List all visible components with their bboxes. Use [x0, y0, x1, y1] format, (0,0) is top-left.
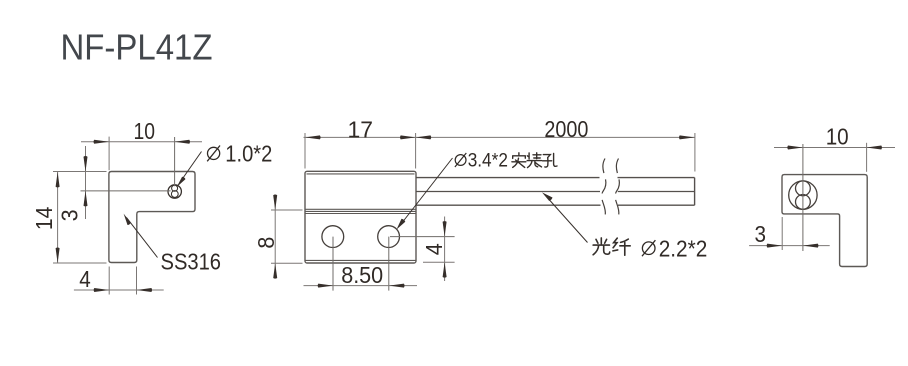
dim 3 upper arrow: [84, 156, 88, 171]
mounting hole right: [378, 226, 400, 248]
body bottom inner line: [305, 259, 416, 261]
label diameter symbol for 2.2*2: [642, 240, 655, 256]
right view part outline: [782, 175, 867, 267]
cable break curve left: [602, 159, 606, 221]
dim 8.50 right arrow: [389, 284, 405, 288]
hole inner circle lower (fiber core): [171, 191, 178, 198]
mounting hole left: [322, 226, 344, 248]
label 安 (mounting) char: [512, 153, 526, 168]
dim 3 (right) right arrow: [803, 244, 819, 248]
dim 10 left arrow: [94, 140, 110, 144]
leader line for hole label: [181, 152, 202, 182]
hole vertical centerline: [802, 144, 804, 251]
dim 10 right arrow: [174, 140, 190, 144]
dim 4 line: [74, 289, 164, 291]
label 装 (install) char: [527, 153, 541, 168]
dim 8.50 line: [304, 285, 418, 287]
svg-text:3: 3: [57, 209, 83, 221]
svg-text:8: 8: [253, 237, 279, 249]
hole outer circle (ferrule): [168, 185, 181, 198]
dim 10 (right) extension line: [866, 143, 868, 172]
dim 4 (middle) bottom extension line: [423, 261, 455, 263]
dim 8 bottom extension line: [271, 262, 303, 264]
right hole centerline down: [388, 237, 390, 291]
svg-text:8.50: 8.50: [341, 262, 383, 288]
sensor body outline: [305, 171, 416, 263]
body middle band line 2: [305, 210, 416, 212]
dim 8.50 left arrow: [318, 284, 334, 288]
svg-text:SS316: SS316: [161, 249, 222, 275]
dim 10 (right) right arrow: [866, 146, 882, 150]
dim 4 right arrow: [137, 288, 153, 292]
svg-text:17: 17: [348, 116, 374, 142]
dim 10 (right) left arrow: [787, 146, 803, 150]
svg-text:NF-PL41Z: NF-PL41Z: [61, 27, 213, 68]
dim 10 line: [81, 141, 202, 143]
body middle band line 1: [305, 208, 416, 210]
leader line for SS316: [127, 218, 158, 258]
label 光 (light) char: [593, 238, 610, 255]
label 孔 (hole) char: [542, 153, 557, 167]
dim 3 (right) left arrow: [767, 244, 783, 248]
svg-text:3.4*2: 3.4*2: [468, 150, 508, 171]
dim 4 left arrow: [94, 288, 110, 292]
fiber cable end cap: [694, 178, 696, 206]
label diameter symbol for 1.0*2: [207, 146, 220, 162]
svg-text:10: 10: [134, 118, 156, 144]
dim 2000 left arrow: [416, 135, 432, 139]
cable break curve right: [615, 159, 619, 221]
right hole centerline right: [390, 236, 455, 238]
leader arrow at hole: [177, 177, 186, 187]
dim 17 right arrow: [400, 135, 416, 139]
hole vertical centerline: [174, 137, 176, 186]
svg-text:4: 4: [79, 266, 91, 292]
dim 2000 right extension line: [694, 133, 696, 172]
dim 17/2000 shared extension line: [415, 133, 417, 169]
dim 3 vertical line: [85, 146, 87, 219]
dim 3 (right) extension line: [781, 217, 783, 250]
svg-text:14: 14: [31, 206, 57, 230]
dim 8 top arrow: [273, 195, 277, 210]
dim 3 (right) line: [749, 245, 830, 247]
dim 4 (middle) top arrow: [443, 221, 447, 236]
dim 8 bottom arrow: [273, 263, 277, 278]
leader line for fiber label: [550, 200, 588, 243]
leader arrow at right mounting hole: [397, 219, 406, 230]
dim 17 left extension line: [304, 133, 306, 169]
dim 10 left extension line: [108, 137, 110, 171]
dim 14 top extension line: [53, 171, 107, 173]
fiber hole outer circle: [789, 181, 817, 209]
fiber hole lower circle: [796, 195, 811, 210]
label diameter symbol for 3.4*2: [455, 153, 466, 167]
svg-text:10: 10: [826, 123, 849, 149]
left hole centerline down: [332, 237, 334, 291]
svg-text:4: 4: [421, 243, 447, 255]
leader line for 3.4*2 mounting holes: [400, 158, 453, 226]
dim 3 lower arrow: [84, 191, 88, 206]
body top inner line: [307, 173, 415, 175]
body middle band line 3: [305, 213, 416, 215]
label 纤 (fiber) char: [613, 238, 630, 255]
svg-text:3: 3: [754, 221, 766, 247]
svg-text:1.0*2: 1.0*2: [225, 141, 272, 167]
dim 4 (middle) vertical line: [444, 217, 446, 282]
fiber cable middle line: [416, 191, 695, 193]
hole inner circle upper (fiber core): [172, 185, 178, 191]
fiber cable top line: [416, 177, 695, 179]
dim 4 (middle) bottom arrow: [443, 262, 447, 277]
dim 4 right extension line: [136, 267, 138, 295]
dim 4 left extension line: [108, 267, 110, 295]
dim 10 (right) line: [774, 147, 895, 149]
fiber cable bottom line: [416, 204, 695, 206]
dim 8 vertical line: [274, 195, 276, 279]
dim 14 bottom arrow: [56, 248, 60, 263]
SS316 leader arrow: [124, 214, 131, 225]
fiber leader arrow: [542, 192, 553, 201]
svg-text:2.2*2: 2.2*2: [659, 236, 708, 262]
dim 14 vertical line: [57, 172, 59, 263]
dim 14 bottom extension line: [53, 262, 107, 264]
svg-text:2000: 2000: [544, 116, 588, 142]
dims 17 and 2000 shared line: [304, 136, 695, 138]
dim 2000 right arrow: [679, 135, 695, 139]
hole horizontal centerline: [81, 190, 171, 192]
dim 17 left arrow: [305, 135, 321, 139]
dim 14 top arrow: [56, 172, 60, 187]
fiber hole upper circle: [796, 181, 811, 196]
dim 8 top extension line: [271, 209, 303, 211]
part outline (L bracket, side view): [109, 172, 195, 263]
